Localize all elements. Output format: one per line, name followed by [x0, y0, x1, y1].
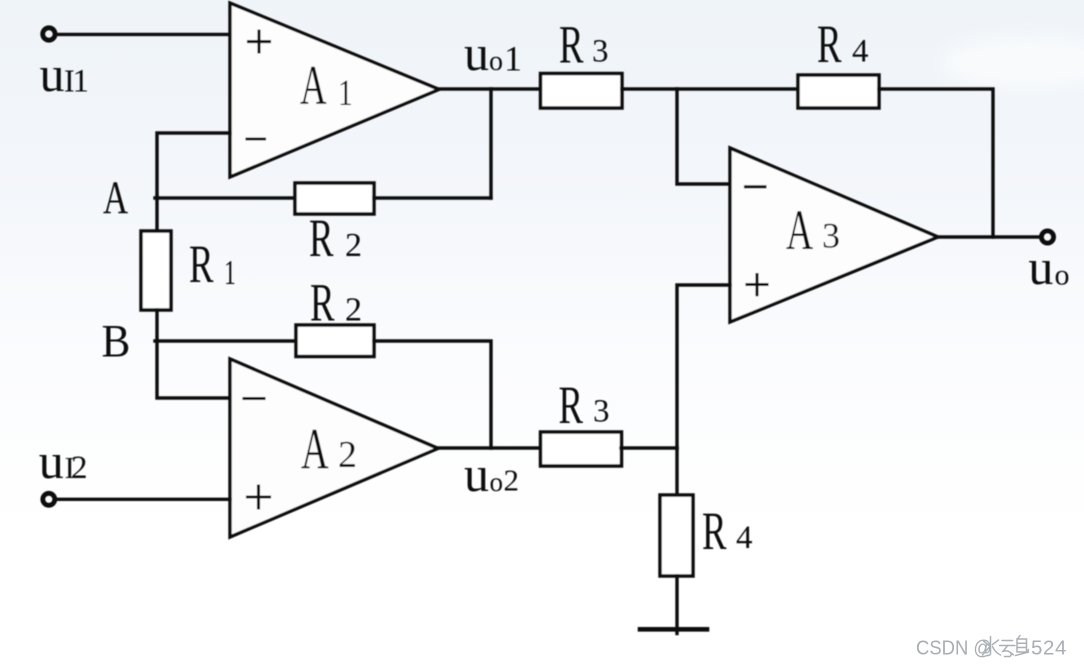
wire R4 top to output node	[879, 89, 993, 237]
svg-text:R: R	[702, 501, 727, 561]
label uo	[1028, 239, 1069, 295]
watermark hanzi shen	[1016, 636, 1029, 656]
label R4 (bottom)	[702, 501, 753, 561]
plus sign A1	[249, 31, 270, 52]
label R2 (top)	[309, 208, 362, 268]
label uo1	[464, 25, 522, 81]
svg-text:R: R	[559, 375, 584, 435]
svg-text:A: A	[103, 171, 128, 223]
svg-text:1: 1	[338, 73, 353, 114]
wire junction down to A3 - input	[677, 89, 730, 184]
svg-text:3: 3	[822, 216, 840, 256]
wire R1 to node B	[155, 310, 158, 341]
svg-text:CSDN @: CSDN @	[916, 637, 992, 660]
wire node A to R2 top	[155, 196, 295, 199]
svg-text:B: B	[102, 315, 131, 367]
svg-text:524: 524	[1031, 637, 1067, 660]
svg-text:A: A	[786, 199, 813, 262]
svg-text:4: 4	[736, 520, 753, 556]
svg-text:R: R	[310, 273, 335, 333]
svg-text:A: A	[301, 417, 329, 482]
resistor R4 (top)	[798, 75, 879, 108]
label uo2	[464, 446, 519, 502]
resistor R2 (top)	[295, 183, 374, 214]
svg-text:R: R	[309, 208, 334, 268]
label A1	[300, 56, 353, 117]
label A2	[301, 417, 357, 482]
label R3 (bottom)	[559, 375, 610, 435]
watermark hanzi shui	[983, 637, 1001, 656]
label R1	[189, 234, 236, 294]
wire R3 bottom to junction	[621, 446, 677, 449]
svg-text:R: R	[189, 234, 214, 294]
label R3 (top)	[559, 14, 609, 74]
resistor R4 (bottom)	[660, 495, 693, 576]
svg-text:2: 2	[71, 450, 88, 486]
resistor R2 (bottom)	[296, 325, 374, 357]
svg-text:u: u	[464, 446, 489, 502]
resistor R3 (top)	[541, 74, 623, 109]
wire R2 top to A1 feedback corner	[374, 196, 491, 199]
wire junction to R4 bottom	[675, 448, 678, 495]
wire A3 output	[938, 235, 1040, 238]
wire R2 bottom to A2 feedback	[374, 341, 491, 448]
ground	[640, 627, 707, 632]
svg-text:u: u	[40, 46, 65, 102]
minus sign A2	[244, 397, 264, 400]
minus sign A3	[746, 185, 766, 188]
svg-text:u: u	[39, 433, 64, 489]
wire node B down to A2 - input	[157, 341, 230, 398]
plus sign A2	[248, 486, 270, 508]
wire A3 + input	[677, 285, 730, 448]
op-amp A3	[730, 148, 938, 322]
wire node B to R2 bottom	[155, 339, 296, 342]
plus sign A3	[747, 275, 767, 295]
label uI2	[39, 433, 88, 489]
op-amp A1	[230, 3, 439, 177]
wire node A to R1	[155, 196, 158, 231]
svg-text:R: R	[817, 14, 842, 74]
resistor R1	[141, 231, 171, 310]
svg-text:o: o	[490, 467, 504, 497]
wire A1 - input	[157, 133, 230, 196]
svg-text:R: R	[559, 14, 584, 74]
svg-text:o: o	[1055, 259, 1070, 292]
label uI1	[40, 46, 90, 102]
label R2 (bottom)	[310, 273, 362, 333]
svg-text:2: 2	[338, 434, 357, 476]
svg-text:u: u	[1028, 239, 1053, 295]
watermark hanzi yun	[1000, 641, 1016, 657]
op-amp A2	[230, 359, 438, 537]
svg-text:4: 4	[852, 34, 869, 70]
minus sign A1	[247, 137, 265, 140]
input terminal uI2	[43, 493, 55, 505]
wire uI1 to A1 + input	[57, 33, 230, 36]
input terminal uI1	[43, 28, 55, 40]
wire feedback vertical A1	[489, 89, 492, 198]
svg-text:2: 2	[504, 463, 520, 498]
wire uI2 to A2 + input	[57, 498, 230, 501]
background highlight blotch	[940, 36, 1084, 88]
resistor R3 (bottom)	[541, 432, 622, 466]
wire A1 output	[439, 87, 541, 90]
svg-text:2: 2	[345, 292, 362, 329]
wire R4 bottom to ground	[675, 576, 678, 634]
svg-text:3: 3	[593, 394, 610, 430]
label A3	[786, 199, 840, 262]
label R4 (top)	[817, 14, 869, 74]
wire R3 top to R4 top	[622, 87, 798, 90]
svg-text:2: 2	[345, 227, 362, 264]
svg-text:1: 1	[504, 38, 522, 78]
output terminal uo	[1041, 231, 1053, 243]
svg-text:o: o	[489, 46, 503, 77]
watermark CSDN	[916, 636, 1067, 660]
svg-text:A: A	[300, 56, 327, 117]
svg-text:1: 1	[73, 64, 90, 100]
svg-text:u: u	[464, 25, 489, 81]
svg-text:3: 3	[592, 34, 609, 70]
wire A2 output	[437, 446, 541, 449]
svg-text:1: 1	[224, 254, 236, 293]
